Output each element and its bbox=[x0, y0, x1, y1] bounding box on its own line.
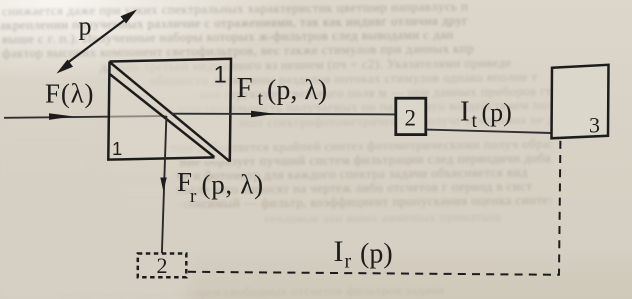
svg-text:I: I bbox=[460, 96, 470, 128]
arrowhead incoming bbox=[49, 113, 73, 120]
transmitted beam wire bbox=[172, 113, 396, 116]
svg-text:(p): (p) bbox=[360, 239, 393, 270]
svg-text:F(λ): F(λ) bbox=[45, 79, 94, 109]
svg-text:t: t bbox=[472, 110, 478, 132]
svg-text:r: r bbox=[190, 186, 197, 207]
reflected beam wire (down) bbox=[162, 116, 167, 253]
p polarization double arrow bbox=[57, 10, 138, 74]
svg-text:r: r bbox=[345, 251, 352, 273]
svg-text:1: 1 bbox=[214, 62, 227, 89]
svg-text:(p, λ): (p, λ) bbox=[267, 75, 327, 106]
svg-text:1: 1 bbox=[112, 138, 122, 159]
svg-text:(p, λ): (p, λ) bbox=[202, 170, 264, 200]
detector box 2 (solid) bbox=[396, 98, 426, 134]
dashed wire from dashed box to 3 bbox=[188, 141, 560, 275]
arrowhead transmitted bbox=[251, 111, 275, 118]
svg-text:(p): (p) bbox=[482, 98, 512, 127]
alternate detector box 2 (dashed) bbox=[138, 254, 187, 278]
svg-text:3: 3 bbox=[589, 113, 600, 138]
beamsplitter element 1 (square) bbox=[108, 59, 231, 162]
svg-text:I: I bbox=[334, 235, 344, 268]
splitter diagonal upper bbox=[110, 63, 229, 162]
faint bleed-through text rows bbox=[2, 0, 468, 19]
wire 2 to 3 bbox=[427, 130, 552, 133]
svg-text:t: t bbox=[258, 88, 264, 110]
incoming beam wire bbox=[4, 116, 167, 118]
svg-text:F: F bbox=[237, 72, 253, 104]
svg-text:p: p bbox=[79, 12, 92, 41]
splitter diagonal lower bbox=[109, 74, 214, 158]
arrowhead reflected bbox=[160, 178, 167, 192]
svg-text:2: 2 bbox=[157, 253, 168, 278]
recorder box 3 (solid) bbox=[552, 65, 609, 139]
svg-text:2: 2 bbox=[405, 106, 417, 131]
